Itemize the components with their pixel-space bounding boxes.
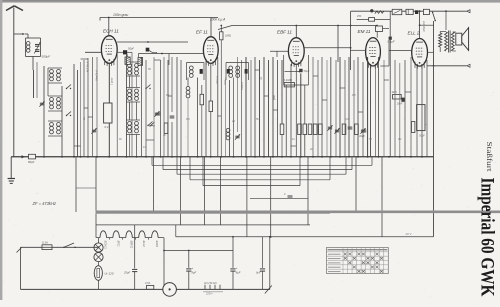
- resistor R20 horizontal: [392, 90, 402, 99]
- resistor R4 hatched: [138, 58, 143, 66]
- svg-text:rot: rot: [259, 77, 263, 80]
- tube U2 EF 11: [196, 30, 218, 66]
- electrolytic C31: [186, 251, 196, 290]
- svg-text:50μF: 50μF: [128, 47, 134, 51]
- svg-text:V.Fe: V.Fe: [223, 79, 227, 85]
- svg-text:N.F. Dr.A: N.F. Dr.A: [86, 61, 90, 72]
- wire top line 3: [351, 10, 467, 12]
- resistor R21 big: [417, 105, 425, 131]
- wire line y198: [250, 197, 308, 199]
- coil L2 pair: [48, 68, 62, 83]
- label Ukw DrA: [95, 70, 99, 81]
- capacitor near EM11: [388, 37, 395, 44]
- switch S2b: [147, 122, 152, 127]
- tube U5 ELL 2: [408, 31, 428, 69]
- wire heater right drop: [162, 238, 165, 290]
- wire stair 5: [203, 157, 300, 186]
- wire below-bus v11: [246, 157, 248, 237]
- capacitor C21: [392, 9, 402, 14]
- coil L6 pair: [126, 88, 140, 103]
- wire below-bus v8: [180, 157, 182, 225]
- wire hookup EM box: [383, 28, 390, 30]
- wire hookup h1: [85, 51, 102, 53]
- trimmer C4: [91, 128, 96, 134]
- svg-text:gelb: gelb: [272, 95, 276, 100]
- svg-text:60pF: 60pF: [28, 160, 35, 164]
- heater label ELL2: [142, 241, 146, 248]
- antenna coil L1 winding: [26, 42, 30, 53]
- coil L5 pair: [126, 62, 140, 76]
- electrolytic C33: [256, 237, 265, 290]
- svg-text:0,5A: 0,5A: [145, 281, 151, 285]
- resistor R3 hatched: [125, 54, 130, 64]
- heater label EBF11: [129, 241, 133, 249]
- fuse squiggle F3: [375, 11, 384, 14]
- resistor R5: [200, 94, 204, 105]
- svg-text:0,3: 0,3: [186, 117, 190, 121]
- capacitor C17: [359, 130, 366, 138]
- resistor row R13: [313, 124, 317, 135]
- electrolytic C32: [230, 237, 240, 290]
- motor symbol M1: [163, 283, 177, 297]
- junction dot ELL riser: [419, 10, 421, 12]
- svg-text:110 150 220: 110 150 220: [204, 283, 217, 285]
- svg-text:+: +: [236, 266, 238, 270]
- resistor row R14: [319, 124, 323, 135]
- svg-text:EM 11: EM 11: [358, 29, 371, 34]
- svg-text:0,1: 0,1: [166, 93, 170, 97]
- svg-text:250: 250: [356, 15, 362, 18]
- label ZF 473: [32, 201, 56, 206]
- band switch S1b: [66, 112, 71, 117]
- wire L1 to band switch: [32, 57, 34, 71]
- wire long vertical right: [433, 21, 435, 237]
- label 200n kab: [209, 18, 225, 22]
- label 2x005 vertical: [422, 20, 426, 32]
- wire below-bus v6: [355, 157, 357, 212]
- wire left block v2: [47, 68, 49, 96]
- thermal blob on y11: [370, 9, 373, 12]
- coil L9: [226, 129, 230, 140]
- svg-text:Staßfurt: Staßfurt: [485, 142, 494, 173]
- label 50uF right: [419, 123, 427, 138]
- capacitor block C23: [423, 9, 429, 14]
- wire top bus 2: [218, 26, 377, 30]
- svg-text:EF 11: EF 11: [196, 30, 208, 35]
- svg-text:220V~: 220V~: [205, 293, 214, 296]
- heater chain wire: [96, 237, 100, 239]
- heater chain of tubes: [100, 231, 162, 240]
- coil L4 pair: [48, 121, 62, 136]
- svg-text:ELL2: ELL2: [142, 241, 146, 248]
- wire x96 to heater: [95, 225, 97, 238]
- capacitor C24 dark: [415, 10, 418, 14]
- wire below-bus v4: [270, 157, 272, 238]
- resistor R30: [439, 32, 442, 53]
- wire bottom mains rail: [21, 288, 270, 290]
- resistor row R12: [308, 124, 312, 135]
- resistor R17: [164, 123, 168, 134]
- resistor row R10: [298, 124, 302, 135]
- switch S5 mains side: [432, 12, 436, 22]
- output transformer T1 core: [449, 31, 451, 53]
- wire below-bus v10: [219, 157, 221, 225]
- resistor R7 grid EF11: [220, 25, 232, 40]
- pot box above EM11: [376, 25, 383, 38]
- speaker LS1 magnet: [456, 33, 462, 45]
- resistor row R15: [342, 124, 346, 135]
- svg-text:8μF: 8μF: [236, 271, 241, 275]
- capacitor C18 on bus: [28, 154, 36, 164]
- IF transformer T2: [187, 63, 205, 81]
- svg-text:0,1A: 0,1A: [42, 241, 48, 245]
- svg-text:8μF: 8μF: [192, 271, 197, 275]
- switch S2a: [145, 85, 150, 90]
- wire left block v4: [73, 64, 75, 157]
- ground symbol main: [8, 157, 15, 184]
- trimmer C12: [334, 128, 339, 134]
- resistor row R9: [280, 124, 284, 135]
- wire left block v5: [77, 70, 79, 157]
- wire below-bus v7: [381, 157, 383, 237]
- coil L7 pair: [126, 120, 140, 135]
- svg-text:+: +: [425, 123, 427, 127]
- junction dot 338: [337, 25, 339, 62]
- svg-text:0,1: 0,1: [398, 137, 402, 141]
- capacitor C8b dark switch: [146, 48, 157, 53]
- wire left block v3: [61, 86, 63, 157]
- wire EBF11 top cap: [295, 25, 297, 38]
- label NF DrA: [86, 61, 90, 72]
- IF box filter: [104, 103, 112, 129]
- svg-text:0,5: 0,5: [352, 93, 356, 97]
- model title Imperial 60 GWK: [477, 178, 498, 297]
- svg-text:0,2: 0,2: [345, 117, 349, 121]
- output transformer T1 primary: [445, 32, 448, 51]
- wire ELL2 anode riser: [419, 10, 421, 38]
- capacitor C13: [348, 127, 353, 129]
- resistor R6: [209, 101, 213, 112]
- speaker LS1 cone: [462, 28, 469, 51]
- wire heater link y237: [176, 236, 434, 238]
- wire stair 1: [152, 157, 372, 166]
- label grau vertical: [110, 77, 114, 85]
- capacitor C15: [156, 113, 161, 115]
- fuse F2 on rail: [145, 281, 154, 289]
- svg-text:EM11: EM11: [155, 241, 159, 248]
- wire below-bus v5: [307, 157, 309, 225]
- capacitor C19: [283, 193, 293, 199]
- wire EF11 top cap: [210, 18, 212, 37]
- wire hookup h3 left: [270, 51, 288, 57]
- svg-text:200n k.μ.A: 200n k.μ.A: [209, 18, 225, 22]
- resistor R25 on y19.4: [356, 15, 375, 21]
- wire link y250.5: [163, 250, 233, 252]
- wire line y19.4: [357, 18, 391, 20]
- chassis separator thick gray line: [96, 212, 500, 214]
- svg-text:1kΩ: 1kΩ: [392, 90, 398, 94]
- wire hookup h3 right: [304, 47, 350, 49]
- band switch S1a: [66, 85, 71, 90]
- wire hookup h6: [380, 40, 389, 66]
- svg-text:V.kw.A: V.kw.A: [240, 82, 244, 90]
- wire diode link: [285, 71, 301, 73]
- trimmer C6: [154, 111, 159, 117]
- wire grid lead gray (100n grau): [100, 18, 218, 21]
- label 100n grau: [113, 13, 128, 17]
- switch S3: [149, 122, 154, 127]
- wire rail right end: [265, 236, 272, 294]
- antenna coil L1 loop: [26, 38, 41, 57]
- svg-text:500μF: 500μF: [42, 55, 51, 59]
- heater label ECH11: [104, 241, 108, 250]
- antenna: [6, 6, 23, 11]
- coil L8: [186, 84, 190, 98]
- barretter Ur120: [94, 266, 114, 281]
- svg-text:Ur 120: Ur 120: [105, 272, 114, 276]
- wire box y53.5: [139, 53, 204, 65]
- tube U3 EBF 11: [277, 30, 304, 67]
- heater label EF11: [116, 241, 120, 248]
- terminal arrow right mid: [467, 64, 470, 67]
- wire hookup h4: [350, 49, 366, 51]
- capacitor block C22: [406, 9, 413, 14]
- scan border left strip: [0, 0, 2, 300]
- capacitor C7: [170, 116, 175, 118]
- wire antenna downlead: [13, 8, 15, 157]
- wire stair 2: [163, 157, 352, 170]
- pilot lamp LA1: [94, 243, 103, 252]
- fuse F1: [42, 241, 52, 250]
- ground bus wire: [11, 156, 433, 158]
- wire hookup h5: [427, 51, 433, 53]
- terminal arrow top right: [467, 10, 470, 13]
- tube U1 ECH 11: [101, 29, 119, 66]
- wire mains line y247: [21, 246, 99, 248]
- voltage selector taps: [203, 283, 223, 296]
- capacitor C8 dark: [117, 47, 134, 55]
- wire short tick connectors: [74, 59, 411, 146]
- shield box EBF11: [284, 55, 309, 85]
- svg-text:2x0,05μF: 2x0,05μF: [422, 20, 426, 32]
- value label 500pF: [42, 55, 51, 59]
- svg-text:20 V: 20 V: [405, 232, 413, 236]
- svg-text:ECH 11: ECH 11: [103, 29, 119, 34]
- wire mains left drop: [17, 247, 22, 289]
- svg-text:30μF: 30μF: [359, 134, 365, 138]
- svg-text:V.kw.A: V.kw.A: [215, 76, 219, 84]
- wire riser x350.6: [350, 11, 352, 70]
- svg-text:EBF 11: EBF 11: [277, 30, 292, 35]
- resistor row R11: [303, 124, 307, 135]
- wire anode line y42: [117, 41, 188, 43]
- svg-text:20: 20: [231, 119, 235, 123]
- resistor R22: [412, 122, 415, 133]
- wire speaker lower terminal: [427, 65, 466, 67]
- arrow on bus: [20, 156, 25, 158]
- tube U4 EM 11: [358, 29, 381, 69]
- svg-text:ELL 2: ELL 2: [408, 31, 420, 36]
- wire ECH11 top cap: [108, 17, 110, 36]
- trimmer C3: [39, 101, 44, 107]
- wire top bus 2b: [419, 24, 434, 26]
- wire arrow into antenna coil: [14, 33, 28, 38]
- variable capacitor C1: [34, 42, 40, 53]
- pilot lamp LA2: [94, 253, 103, 262]
- trimmer C14: [360, 128, 365, 134]
- svg-text:ZF = 473kHz: ZF = 473kHz: [32, 201, 56, 206]
- wire lamp column: [98, 238, 100, 290]
- svg-text:EF11: EF11: [116, 241, 120, 248]
- IF transformer T3: [226, 63, 249, 81]
- brand label Stassfurt: [485, 142, 494, 173]
- trimmer C9: [235, 134, 240, 140]
- svg-text:0,1: 0,1: [105, 125, 110, 129]
- scan border top bar: [0, 0, 500, 3]
- wire line y224.8: [96, 225, 310, 237]
- wire vertical forest: [34, 11, 428, 157]
- wire below-bus v2: [76, 157, 96, 225]
- wire below-bus v3: [152, 157, 154, 212]
- svg-text:ECH11: ECH11: [104, 241, 108, 250]
- capacitor C10 dark: [299, 69, 310, 73]
- svg-text:Ukw.Dr.A: Ukw.Dr.A: [95, 70, 99, 81]
- svg-text:EBF11: EBF11: [129, 241, 133, 249]
- svg-text:Imperial 60 GWK: Imperial 60 GWK: [477, 178, 498, 297]
- svg-text:50μF: 50μF: [304, 69, 310, 73]
- electrolytic C30: [123, 225, 137, 290]
- output transformer T1 secondary: [451, 32, 455, 51]
- svg-text:25μF: 25μF: [123, 271, 130, 275]
- wire stair 3: [177, 157, 346, 174]
- label 1MOhm detector: [0, 0, 1, 1]
- resistor R8 horizontal: [284, 78, 295, 87]
- label 20V: [405, 232, 413, 236]
- alignment table: [327, 248, 389, 274]
- resistor row R16: [355, 124, 359, 135]
- svg-text:100n grau: 100n grau: [113, 13, 128, 17]
- wire below-bus v1: [75, 157, 77, 212]
- wire transformer primary feed: [440, 10, 447, 31]
- svg-text:+: +: [192, 266, 194, 270]
- wire below-bus v9: [203, 157, 205, 225]
- wire hookup ELL2 left: [389, 50, 412, 52]
- coil L3 pair: [48, 96, 62, 111]
- svg-text:8μF: 8μF: [256, 271, 261, 275]
- capacitor C16 dark: [397, 98, 405, 106]
- heater label EM11: [155, 241, 159, 248]
- trimmer C11: [327, 125, 332, 131]
- wire stair 4: [190, 157, 330, 180]
- misc small value labels: [82, 67, 402, 151]
- svg-text:1 grau: 1 grau: [110, 77, 114, 85]
- svg-text:0,1μF: 0,1μF: [388, 40, 395, 44]
- svg-text:1MΩ: 1MΩ: [225, 34, 232, 38]
- mains switch S4: [63, 243, 76, 248]
- wire left block top: [43, 66, 45, 157]
